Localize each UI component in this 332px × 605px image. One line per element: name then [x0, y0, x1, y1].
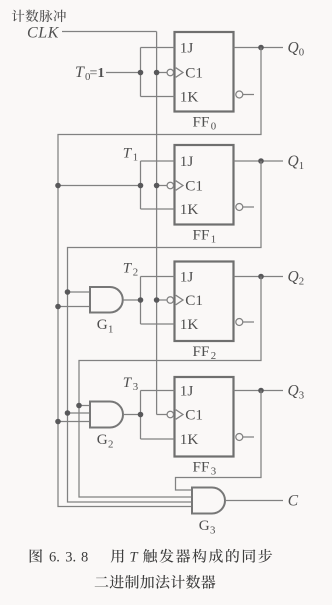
svg-text:2: 2 — [133, 267, 138, 279]
svg-text:C1: C1 — [185, 178, 203, 195]
flip-flop FF2 body — [175, 262, 234, 342]
caption line 1: 图 6.3.8 用 T 触发器构成的同步 — [30, 549, 273, 566]
wire: Q0 rail to G2 lower input — [58, 421, 90, 423]
svg-text:G: G — [97, 431, 108, 448]
caption line 2: 二进制加法计数器 — [95, 575, 216, 589]
complementary output bubble of FF3 — [236, 434, 243, 441]
label G2 — [97, 431, 114, 451]
junction: Q2 rail at G2 input — [76, 403, 82, 409]
wire: unused Q-bar stub of FF3 — [243, 436, 254, 438]
svg-text:C: C — [288, 493, 299, 510]
label T3 — [123, 375, 138, 393]
flip-flop FF0 clock edge wedge — [176, 68, 183, 78]
wire: CLK vertical bus down to FF3 C1 — [156, 32, 158, 415]
wire: Q0 rail to G1 lower input — [58, 306, 90, 308]
junction: Q0 rail at T1 row — [55, 183, 61, 189]
svg-text:0: 0 — [299, 47, 304, 59]
svg-text:FF: FF — [193, 114, 210, 131]
junction: T1 feed at FF1 bracket — [138, 183, 144, 189]
svg-text:1K: 1K — [180, 89, 199, 106]
label FF0 — [193, 114, 217, 133]
label FF3 — [193, 459, 217, 478]
svg-text:1: 1 — [133, 152, 138, 164]
label Q3 — [288, 383, 305, 402]
junction: Q0 feedback tap — [258, 45, 264, 51]
label Q2 — [288, 269, 305, 288]
junction: CLK to FF1 C1 — [154, 183, 160, 189]
label T0=1 — [75, 64, 105, 83]
wire: G2 output to T3 bracket — [123, 414, 141, 416]
junction: Q0 rail at G1 input — [55, 304, 61, 310]
svg-text:2: 2 — [108, 439, 113, 451]
wire: CLK stub into C1 of FF0 — [157, 72, 168, 74]
wire: unused Q-bar stub of FF2 — [243, 321, 254, 323]
svg-text:1K: 1K — [180, 201, 199, 218]
net CLK label — [27, 25, 60, 42]
wire: Q1 output from FF1 — [234, 160, 284, 162]
svg-text:2: 2 — [299, 276, 304, 288]
junction: T3 feed at FF3 bracket — [138, 412, 144, 418]
T bracket to 1J and 1K of FF2 — [141, 277, 175, 325]
flip-flop FF1 clock inversion bubble — [167, 182, 174, 189]
T bracket to 1J and 1K of FF0 — [141, 48, 175, 97]
svg-text:0: 0 — [211, 121, 216, 133]
flip-flop FF3 body — [175, 377, 234, 457]
flip-flop FF3 clock edge wedge — [176, 410, 183, 420]
wire: Q0 output from FF0 — [234, 47, 284, 49]
label: counting pulse (计数脉冲) — [12, 10, 66, 22]
svg-text:FF: FF — [193, 343, 210, 360]
svg-text:G: G — [199, 517, 210, 534]
svg-text:1K: 1K — [180, 431, 199, 448]
T bracket to 1J and 1K of FF1 — [141, 161, 175, 209]
svg-text:FF: FF — [193, 227, 210, 244]
complementary output bubble of FF1 — [236, 204, 243, 211]
svg-text:Q: Q — [288, 269, 299, 286]
complementary output bubble of FF2 — [236, 319, 243, 326]
wire: CLK stub into C1 of FF1 — [157, 185, 168, 187]
wire: Q1 rail to G1 upper input — [68, 291, 91, 293]
label G3 — [199, 517, 216, 537]
wire: G1 output to T2 bracket — [123, 299, 141, 301]
junction: T2 feed at FF2 bracket — [138, 297, 144, 303]
junction: CLK to FF0 C1 — [154, 70, 160, 76]
svg-text:3: 3 — [211, 466, 216, 478]
and-gate G3 body — [192, 488, 225, 514]
label FF2 — [193, 343, 217, 362]
svg-text:6.: 6. — [49, 550, 60, 566]
label T2 — [123, 261, 138, 279]
junction: Q1 rail at G1 input — [65, 289, 71, 295]
label Q1 — [288, 153, 305, 172]
junction: T0 at FF0 bracket — [138, 70, 144, 76]
junction: CLK to FF2 C1 — [154, 297, 160, 303]
wire: CLK from label to clock bus corner — [62, 31, 157, 33]
wire: Q1 feedback (down, across below FF1, down rail, into G3) — [68, 161, 262, 502]
wire: CLK stub into C1 of FF2 — [157, 299, 168, 301]
svg-text:T: T — [75, 64, 85, 81]
flip-flop FF3 clock inversion bubble — [167, 411, 174, 418]
junction: Q0 rail at G2 input — [55, 419, 61, 425]
flip-flop FF0 clock inversion bubble — [167, 69, 174, 76]
svg-text:8: 8 — [81, 550, 88, 566]
svg-text:1: 1 — [98, 66, 105, 81]
label Q0 — [288, 40, 305, 59]
svg-text:Q: Q — [288, 40, 299, 57]
svg-text:1J: 1J — [180, 383, 194, 400]
svg-text:FF: FF — [193, 459, 210, 476]
T bracket to 1J and 1K of FF3 — [141, 391, 175, 440]
wire: Q3 output from FF3 — [234, 390, 284, 392]
svg-text:C1: C1 — [185, 65, 203, 82]
flip-flop FF1 body — [175, 145, 234, 225]
wire: T0 constant-1 into FF0 bracket — [106, 72, 141, 74]
svg-text:3: 3 — [133, 381, 138, 393]
and-gate G1 body — [90, 287, 123, 313]
flip-flop FF2 clock inversion bubble — [167, 297, 174, 304]
wire: Q2 output from FF2 — [234, 276, 284, 278]
flip-flop FF1 clock edge wedge — [176, 181, 183, 191]
label C (carry out) — [288, 493, 299, 510]
svg-text:T: T — [130, 550, 139, 566]
svg-text:1J: 1J — [180, 40, 194, 57]
wire: Q0 to T1 bracket of FF1 — [58, 185, 141, 187]
svg-text:3: 3 — [299, 390, 304, 402]
and-gate G2 body — [90, 402, 123, 428]
svg-text:3.: 3. — [65, 550, 76, 566]
svg-text:CLK: CLK — [27, 25, 60, 42]
flip-flop FF2 clock edge wedge — [176, 295, 183, 305]
junction: Q1 feedback tap — [258, 158, 264, 164]
label G1 — [97, 316, 114, 336]
wire: Q3 feedback down into G3 top input — [176, 391, 262, 491]
label FF1 — [193, 227, 217, 246]
svg-text:1J: 1J — [180, 153, 194, 170]
junction: Q1 rail at G2 input — [65, 410, 71, 416]
wire: Q2 rail to G2 upper input — [79, 405, 90, 407]
wire: unused Q-bar stub of FF1 — [243, 206, 254, 208]
svg-text:1K: 1K — [180, 316, 199, 333]
complementary output bubble of FF0 — [236, 91, 243, 98]
wire: carry output C from G3 — [225, 500, 283, 502]
svg-text:1J: 1J — [180, 269, 194, 286]
svg-text:C1: C1 — [185, 292, 203, 309]
svg-text:1: 1 — [108, 324, 113, 336]
label T1 — [123, 146, 138, 164]
svg-text:C1: C1 — [185, 407, 203, 424]
junction: Q2 feedback tap — [258, 274, 264, 280]
svg-text:1: 1 — [299, 160, 304, 172]
wire: Q1 rail to G2 middle input — [68, 412, 91, 414]
wire: Q2 feedback (down, across below FF2, down rail, into G3) — [79, 277, 261, 498]
svg-text:=: = — [90, 66, 98, 81]
svg-text:Q: Q — [288, 153, 299, 170]
flip-flop FF0 body — [175, 32, 234, 112]
wire: unused Q-bar stub of FF0 — [243, 94, 254, 96]
wire: CLK stub into C1 of FF3 — [157, 414, 168, 416]
wire: Q0 feedback (down, across above FF1, down left rail, into G3) — [58, 48, 261, 507]
svg-text:1: 1 — [211, 234, 216, 246]
svg-text:3: 3 — [210, 525, 215, 537]
junction: Q3 feedback tap — [258, 388, 264, 394]
svg-text:Q: Q — [288, 383, 299, 400]
svg-text:G: G — [97, 316, 108, 333]
